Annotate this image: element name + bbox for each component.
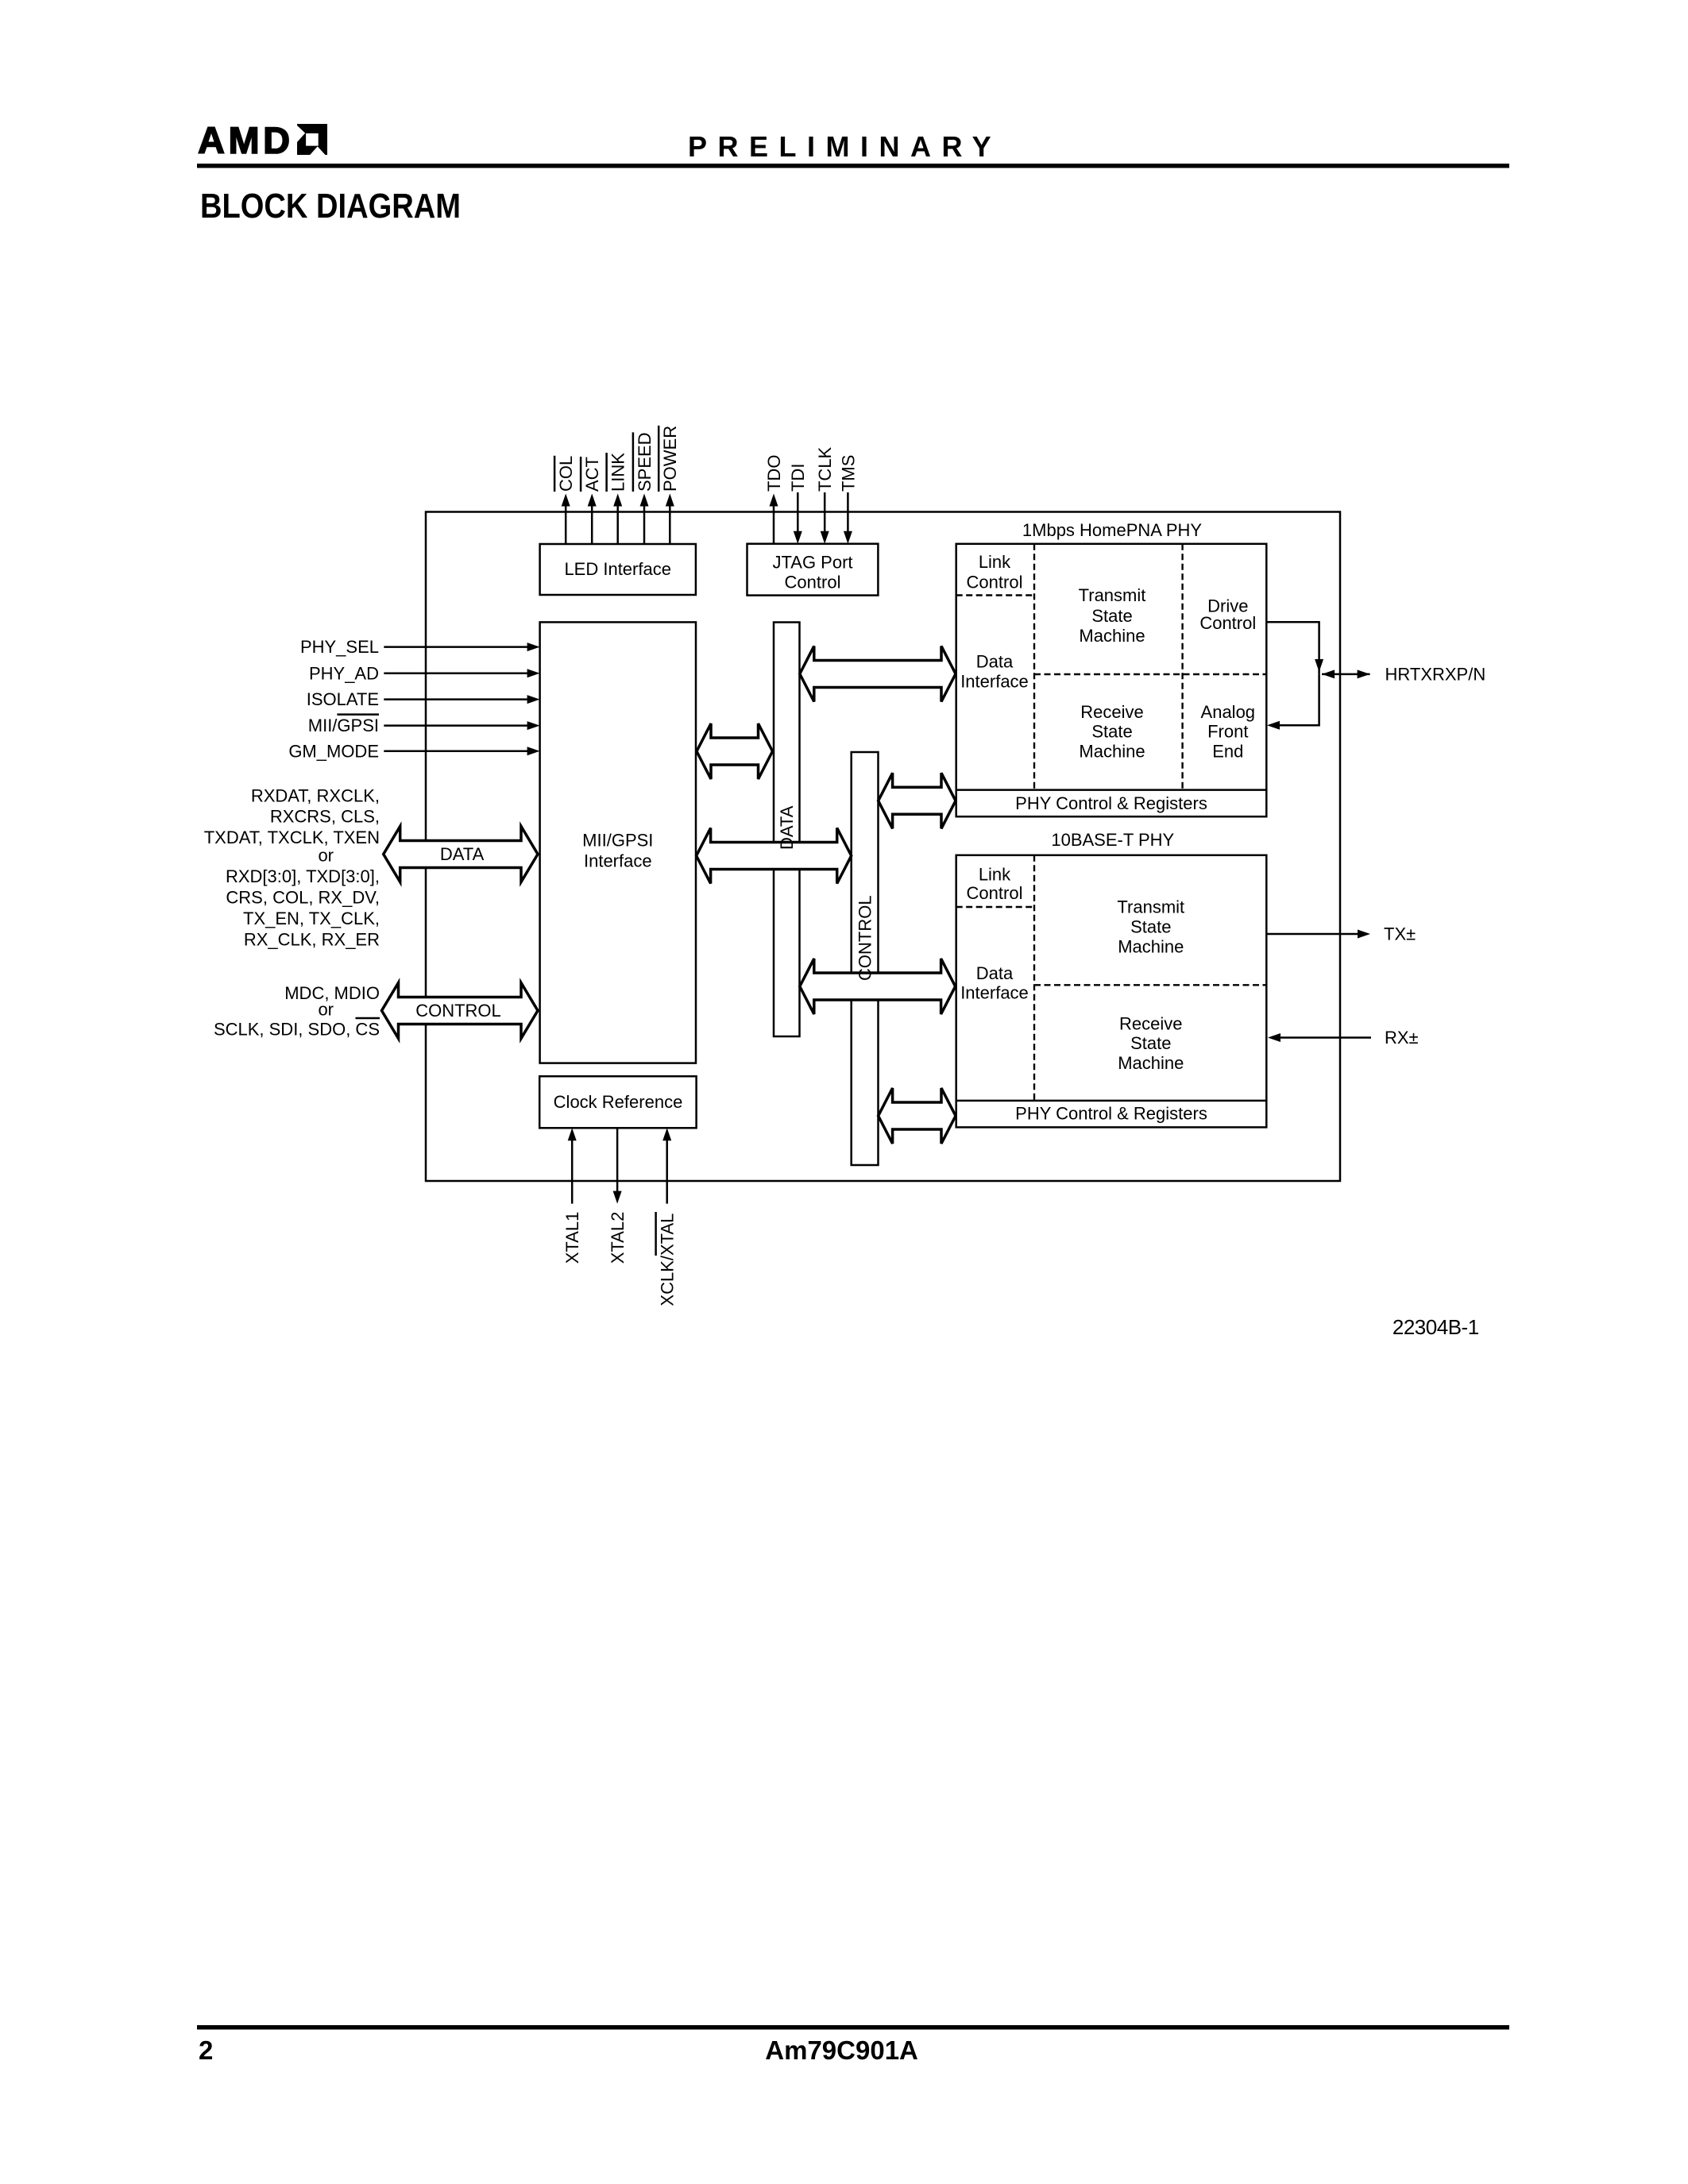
wire JTAG input TDI <box>797 492 799 537</box>
svg-text:Am79C901A: Am79C901A <box>765 2035 918 2065</box>
svg-text:Transmit: Transmit <box>1117 897 1184 917</box>
wire RX input <box>1280 1036 1371 1039</box>
Analog Front End label <box>1201 702 1256 762</box>
Receive State Machine label (10BASE-T) <box>1118 1013 1184 1073</box>
footer rule <box>197 2025 1509 2030</box>
wire JTAG input TCLK <box>824 492 826 537</box>
svg-text:State: State <box>1091 722 1132 742</box>
JTAG pin label TDO <box>764 455 784 492</box>
CONTROL bus arrow (pins to MII/GPSI Interface) <box>382 983 539 1039</box>
svg-text:Interface: Interface <box>584 851 652 871</box>
svg-text:TX_EN, TX_CLK,: TX_EN, TX_CLK, <box>243 909 380 928</box>
svg-text:SPEED: SPEED <box>635 432 655 492</box>
wire LED output ACT <box>591 500 593 544</box>
DATA bus bar label <box>777 805 797 850</box>
clock pin label XTAL1 <box>562 1212 582 1264</box>
svg-text:XCLK/XTAL: XCLK/XTAL <box>658 1214 678 1306</box>
header rule <box>197 164 1509 168</box>
pin list label (management interface signals) <box>214 983 380 1040</box>
Link Control label (10BASE-T) <box>967 865 1023 904</box>
1Mbps HomePNA PHY block <box>956 544 1267 816</box>
Clock Reference block <box>539 1076 696 1128</box>
Drive Control label <box>1199 596 1256 633</box>
dashed partition under Link Control (10BASE-T) <box>956 906 1034 908</box>
svg-text:RX_CLK, RX_ER: RX_CLK, RX_ER <box>244 930 380 950</box>
LED Interface block <box>540 544 696 595</box>
LED pin label COL (overline) <box>554 456 576 492</box>
wire pin PHY_SEL into MII/GPSI Interface <box>384 646 529 648</box>
svg-text:HRTXRXP/N: HRTXRXP/N <box>1385 664 1486 684</box>
svg-text:End: End <box>1212 742 1243 762</box>
wire LED output SPEED <box>643 500 646 544</box>
svg-text:MII/GPSI: MII/GPSI <box>582 831 653 851</box>
svg-text:RXDAT, RXCLK,: RXDAT, RXCLK, <box>251 785 380 805</box>
svg-text:RX±: RX± <box>1385 1028 1419 1048</box>
svg-text:Control: Control <box>967 883 1023 903</box>
svg-text:PHY Control & Registers: PHY Control & Registers <box>1015 1104 1207 1124</box>
Receive State Machine label (HomePNA) <box>1079 702 1145 762</box>
svg-text:Data: Data <box>976 651 1014 671</box>
svg-text:2: 2 <box>199 2035 213 2065</box>
svg-text:Machine: Machine <box>1079 742 1145 762</box>
svg-text:PRELIMINARY: PRELIMINARY <box>688 130 1002 163</box>
CONTROL bus bar label <box>856 895 875 981</box>
Link Control label (HomePNA) <box>967 552 1023 592</box>
svg-text:SCLK, SDI, SDO, CS: SCLK, SDI, SDO, CS <box>214 1020 380 1040</box>
MII/GPSI Interface block <box>540 622 696 1063</box>
wire HRTXRXP/N bidirectional pad <box>1322 673 1370 676</box>
dashed partition under Link Control (HomePNA) <box>956 594 1034 596</box>
svg-text:XTAL1: XTAL1 <box>562 1212 582 1264</box>
svg-text:TX±: TX± <box>1384 924 1416 944</box>
wire XTAL1 input <box>571 1136 574 1204</box>
wire Drive Control output to HRTXRXP/N node <box>1267 622 1319 674</box>
wire JTAG output TDO <box>773 500 775 544</box>
svg-text:CONTROL: CONTROL <box>856 895 875 981</box>
svg-text:GM_MODE: GM_MODE <box>288 741 379 761</box>
svg-text:PHY_AD: PHY_AD <box>309 663 379 683</box>
wire XCLK/XTAL input <box>666 1136 668 1204</box>
Data Interface label (10BASE-T) <box>960 963 1029 1003</box>
svg-text:TDO: TDO <box>764 455 784 492</box>
svg-text:XTAL2: XTAL2 <box>608 1212 628 1264</box>
svg-text:10BASE-T PHY: 10BASE-T PHY <box>1051 830 1174 850</box>
svg-text:DATA: DATA <box>777 805 797 850</box>
dashed partition: drive/analog column (HomePNA) <box>1181 544 1183 790</box>
wire TX output <box>1267 933 1358 936</box>
wire pin ISOLATE into MII/GPSI Interface <box>384 698 529 700</box>
svg-text:AMD: AMD <box>198 119 294 161</box>
outer chip boundary box <box>426 512 1340 1182</box>
svg-text:RXD[3:0], TXD[3:0],: RXD[3:0], TXD[3:0], <box>226 866 380 886</box>
wire XTAL2 output <box>616 1128 619 1196</box>
svg-text:Clock Reference: Clock Reference <box>554 1092 683 1112</box>
DATA bus bar <box>774 623 800 1037</box>
Transmit State Machine label (HomePNA) <box>1079 585 1146 646</box>
wire JTAG input TMS <box>847 492 849 537</box>
svg-text:ACT: ACT <box>582 457 602 492</box>
svg-text:Control: Control <box>785 572 841 592</box>
bus arrow CONTROL bar to HomePNA PHY Control & Registers <box>879 773 956 828</box>
wire pin MII/GPSI into MII/GPSI Interface <box>384 724 529 727</box>
svg-text:JTAG Port: JTAG Port <box>772 553 852 573</box>
pin list label (MII/GPSI data signals) <box>204 785 380 949</box>
bus arrow DATA bar to HomePNA Data Interface <box>800 646 956 702</box>
svg-text:Receive: Receive <box>1119 1013 1182 1033</box>
JTAG Port Control block <box>747 544 879 596</box>
svg-text:1Mbps HomePNA PHY: 1Mbps HomePNA PHY <box>1022 520 1203 540</box>
LED pin label POWER (overline) <box>659 426 680 492</box>
svg-text:MII/GPSI: MII/GPSI <box>308 716 379 735</box>
svg-text:or: or <box>318 846 334 866</box>
svg-text:or: or <box>318 1000 334 1020</box>
dashed partition transmit/receive (10BASE-T) <box>1034 984 1266 986</box>
10BASE-T PHY block <box>956 855 1267 1128</box>
svg-text:Transmit: Transmit <box>1079 585 1146 605</box>
svg-text:POWER: POWER <box>660 426 680 492</box>
dashed partition transmit/receive (HomePNA) <box>1034 673 1266 675</box>
svg-text:Machine: Machine <box>1079 626 1145 646</box>
wire LED output LINK <box>616 500 619 544</box>
svg-text:TXDAT, TXCLK, TXEN: TXDAT, TXCLK, TXEN <box>204 828 380 847</box>
svg-text:Machine: Machine <box>1118 1053 1184 1073</box>
svg-text:PHY_SEL: PHY_SEL <box>300 637 379 657</box>
LED pin label SPEED (overline) <box>633 432 655 492</box>
bus arrow CONTROL bar to 10BASE-T PHY Control & Registers <box>879 1088 956 1144</box>
svg-text:DATA: DATA <box>440 844 485 864</box>
svg-text:COL: COL <box>556 456 576 492</box>
JTAG pin label TDI <box>788 464 808 492</box>
dashed partition: link/data column (HomePNA) <box>1033 544 1035 790</box>
svg-text:RXCRS, CLS,: RXCRS, CLS, <box>270 807 380 827</box>
svg-text:ISOLATE: ISOLATE <box>307 689 379 709</box>
svg-text:Receive: Receive <box>1080 702 1143 722</box>
clock pin label XTAL2 <box>608 1212 628 1264</box>
svg-text:TCLK: TCLK <box>815 446 835 492</box>
svg-text:22304B-1: 22304B-1 <box>1393 1315 1479 1339</box>
wire LED output COL <box>565 500 567 544</box>
clock pin label XCLK/XTAL (XTAL overline) <box>656 1212 678 1306</box>
Data Interface label (HomePNA) <box>960 651 1029 691</box>
svg-text:Interface: Interface <box>960 671 1029 691</box>
svg-text:CONTROL: CONTROL <box>415 1001 501 1021</box>
svg-text:Control: Control <box>967 572 1023 592</box>
wire HRTXRXP/N node to Analog Front End <box>1280 674 1319 725</box>
svg-text:Link: Link <box>979 552 1011 572</box>
svg-text:Interface: Interface <box>960 983 1029 1003</box>
svg-text:LED Interface: LED Interface <box>564 559 671 579</box>
svg-text:LINK: LINK <box>608 453 628 492</box>
svg-text:State: State <box>1091 606 1132 626</box>
wire pin GM_MODE into MII/GPSI Interface <box>384 751 529 753</box>
svg-text:TMS: TMS <box>838 455 858 492</box>
svg-text:Analog: Analog <box>1201 702 1256 722</box>
AMD logo arrow symbol <box>297 124 327 155</box>
bus arrow MII to CONTROL bar (crosses DATA bar) <box>697 828 852 884</box>
DATA bus arrow (pins to MII/GPSI Interface) <box>384 827 538 882</box>
JTAG pin label TMS <box>838 455 858 492</box>
LED pin label ACT (overline) <box>581 457 602 492</box>
svg-text:Data: Data <box>976 963 1014 983</box>
svg-text:Front: Front <box>1207 722 1248 742</box>
wire LED output POWER <box>669 500 671 544</box>
svg-text:Control: Control <box>1199 613 1256 633</box>
svg-text:PHY Control & Registers: PHY Control & Registers <box>1015 793 1207 813</box>
svg-text:State: State <box>1130 916 1171 936</box>
Transmit State Machine label (10BASE-T) <box>1117 897 1184 957</box>
svg-text:State: State <box>1130 1033 1171 1053</box>
svg-text:Machine: Machine <box>1118 936 1184 956</box>
svg-text:CRS, COL, RX_DV,: CRS, COL, RX_DV, <box>226 888 380 908</box>
JTAG pin label TCLK <box>815 446 835 492</box>
LED pin label LINK (overline) <box>607 453 628 492</box>
CONTROL bus bar <box>852 752 879 1165</box>
bus arrow MII to DATA bar <box>697 723 773 779</box>
svg-text:BLOCK DIAGRAM: BLOCK DIAGRAM <box>200 187 461 226</box>
wire pin PHY_AD into MII/GPSI Interface <box>384 673 529 675</box>
svg-text:TDI: TDI <box>788 464 808 492</box>
bus arrow DATA bar to 10BASE-T Data Interface (crosses CONTROL bar) <box>800 959 956 1014</box>
svg-text:Link: Link <box>979 865 1011 885</box>
dashed partition: link/data column (10BASE-T) <box>1033 855 1035 1101</box>
